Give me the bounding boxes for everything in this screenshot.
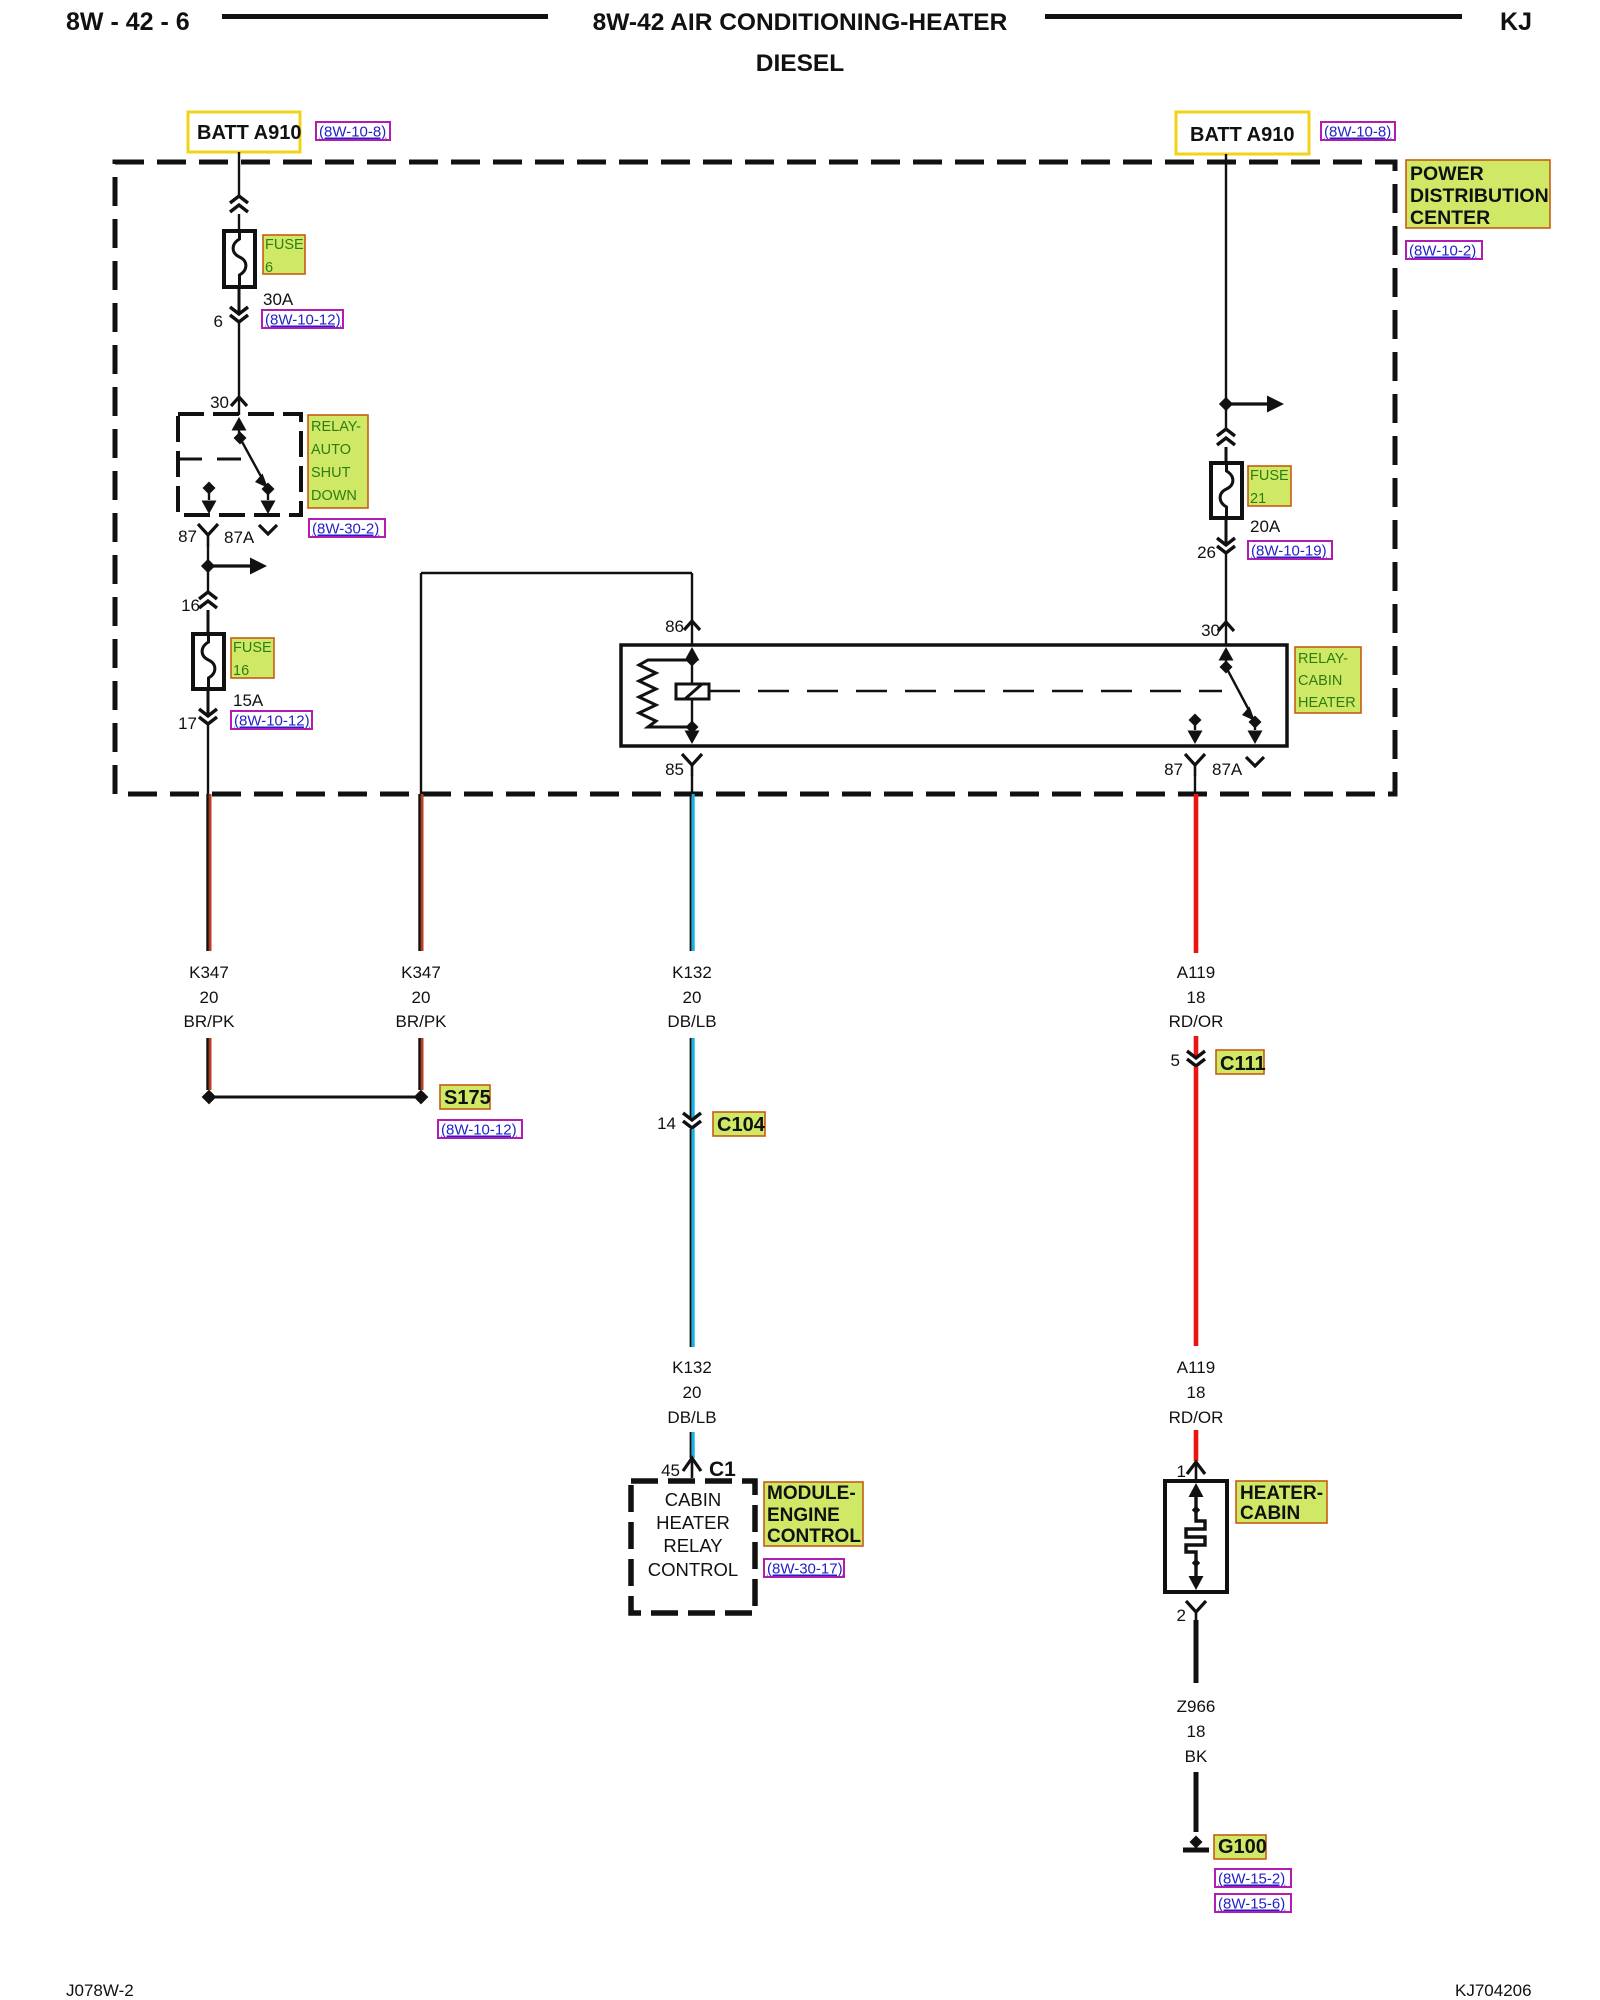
link 8W-10-12 (fuse 16) [231,711,312,730]
ASD relay common arm pin 30 [232,417,247,445]
wire K132 to ECM pin 45 [690,1432,692,1458]
power distribution center dashed border [115,162,1395,794]
relay contact arm pin 30 [1219,647,1263,744]
wire A119 to heater pin 1 [1194,1430,1199,1461]
svg-text:(8W-15-6): (8W-15-6) [1218,1896,1285,1913]
label FUSE 6 [263,235,305,276]
pin 87A chevron (ASD) [259,525,277,534]
svg-text:CENTER: CENTER [1410,207,1490,229]
junction diamond + continuation arrow (right) [1219,396,1284,413]
pin 30 chevron (cabin relay) [1218,622,1234,645]
in-line connector (double chevron up) [230,196,248,231]
ASD relay switch blade to 87A [240,438,276,514]
svg-text:K347: K347 [189,963,229,982]
wire K347 left (BR/PK) upper segment [206,794,209,951]
link 8W-10-12 (fuse 6) [262,310,343,329]
svg-text:G100: G100 [1218,1836,1267,1858]
svg-text:CABIN: CABIN [665,1489,722,1510]
svg-text:(8W-10-12): (8W-10-12) [441,1122,517,1139]
link 8W-30-17 [764,1559,844,1578]
link 8W-10-8 (right) [1321,122,1395,141]
svg-text:RELAY-: RELAY- [311,419,361,435]
svg-text:21: 21 [1250,491,1266,507]
wire pin 6 to ASD relay [238,323,240,397]
svg-text:(8W-10-19): (8W-10-19) [1251,543,1327,560]
svg-text:A119: A119 [1177,963,1215,982]
svg-text:FUSE: FUSE [1250,468,1289,484]
label FUSE 16 [231,638,274,679]
svg-text:DOWN: DOWN [311,488,357,504]
svg-text:J078W-2: J078W-2 [66,1981,134,2000]
svg-text:20: 20 [412,988,431,1007]
svg-text:(8W-10-12): (8W-10-12) [234,713,310,730]
wire pin 26 down to pin 30 [1225,554,1227,622]
relay cabin heater box [621,645,1287,746]
header rule right [1045,14,1462,19]
svg-text:Z966: Z966 [1177,1697,1216,1716]
svg-text:AUTO: AUTO [311,442,351,458]
wire 85 to PDC border [691,775,693,794]
svg-text:RELAY-: RELAY- [1298,651,1348,667]
pin 85 Y connector [682,754,702,776]
wire label K132 20 DB/LB (lower) [667,1358,716,1427]
svg-text:20: 20 [683,1383,702,1402]
connector C104 double chevron [683,1113,701,1128]
svg-text:POWER: POWER [1410,163,1484,185]
in-line connector (double chevron up, right) [1217,429,1235,463]
svg-text:HEATER: HEATER [656,1512,730,1533]
label G100 [1214,1835,1267,1859]
wire fuse 6 to pin 6 connector [238,287,241,314]
in-line connector pin 16 (double chevron up) [199,592,217,634]
svg-text:86: 86 [665,617,684,636]
wire A119 to C111 [1194,1036,1199,1058]
wire A119 below C111 [1194,1067,1199,1346]
ECM internal text CABIN HEATER RELAY CONTROL [648,1489,738,1580]
in-line connector pin 6 (double chevron down) [230,307,248,322]
svg-text:87A: 87A [224,528,255,547]
label RELAY-AUTO SHUT DOWN [308,415,368,508]
battery feed box BATT A910 (right) [1176,112,1309,154]
wire pin 17 to PDC border [207,725,209,794]
svg-text:18: 18 [1187,1383,1206,1402]
svg-text:45: 45 [661,1461,680,1480]
svg-text:1: 1 [1177,1462,1186,1481]
wire label K347 20 BR/PK (right) [395,963,447,1031]
link 8W-10-12 (S175) [438,1120,522,1139]
svg-text:30A: 30A [263,290,294,309]
svg-text:6: 6 [265,260,273,276]
wire fuse 16 to pin 17 [207,689,210,716]
label HEATER-CABIN [1236,1481,1327,1524]
svg-text:16: 16 [181,596,200,615]
heater pin 1 chevron [1187,1462,1205,1480]
svg-text:5: 5 [1171,1051,1180,1070]
connector C1 chevron [683,1458,701,1478]
svg-text:CABIN: CABIN [1240,1503,1300,1524]
module engine control dashed box [631,1481,755,1613]
header rule left [222,14,548,19]
svg-text:HEATER: HEATER [1298,695,1356,711]
relay coil dashed actuation line [709,690,1222,693]
link 8W-10-19 [1248,541,1332,560]
link 8W-10-8 (left) [316,122,390,141]
svg-text:FUSE: FUSE [265,237,304,253]
svg-text:87: 87 [1164,760,1183,779]
label MODULE-ENGINE CONTROL [764,1482,863,1547]
wire A119 (RD/OR) upper segment [1194,794,1199,953]
wire K347 right lower segment [418,1038,421,1090]
svg-text:MODULE-: MODULE- [767,1483,856,1504]
in-line connector pin 26 (double chevron down) [1217,538,1235,553]
relay coil branch 86-85 [685,647,700,744]
relay contact 87 stub [1188,713,1203,744]
relay coil box with slash [676,684,709,699]
svg-text:BK: BK [1185,1747,1208,1766]
battery feed box BATT A910 (left) [188,112,301,152]
wire BATT A910 right down [1225,154,1227,404]
svg-text:(8W-10-2): (8W-10-2) [1409,243,1476,260]
junction diamond + continuation arrow [201,558,267,575]
relay coil resistor zigzag [639,660,692,727]
svg-text:BATT A910: BATT A910 [197,122,301,144]
label POWER DISTRIBUTION CENTER [1406,160,1550,229]
svg-text:30: 30 [210,393,229,412]
link 8W-15-2 [1215,1869,1291,1888]
fuse F21 [1211,463,1242,518]
svg-text:C1: C1 [709,1458,736,1481]
svg-text:K347: K347 [401,963,441,982]
svg-text:87A: 87A [1212,760,1243,779]
connector C111 double chevron [1187,1051,1205,1066]
svg-text:(8W-30-2): (8W-30-2) [312,521,379,538]
wire to in-line connector [1225,404,1227,429]
fuse F16 [193,634,224,689]
svg-text:DB/LB: DB/LB [667,1012,716,1031]
wire label K347 20 BR/PK (left) [183,963,235,1031]
svg-text:20A: 20A [1250,517,1281,536]
svg-text:FUSE: FUSE [233,640,272,656]
link 8W-30-2 [309,519,385,538]
wire label K132 20 DB/LB (upper) [667,963,716,1031]
wire K347 right (BR/PK) upper segment [418,794,421,951]
svg-text:20: 20 [200,988,219,1007]
svg-text:K132: K132 [672,963,712,982]
svg-text:KJ: KJ [1500,8,1532,36]
svg-text:CONTROL: CONTROL [767,1526,861,1547]
wire horizontal to relay coil 86 [421,572,692,574]
ground G100 symbol [1183,1835,1209,1850]
svg-text:SHUT: SHUT [311,465,351,481]
svg-text:16: 16 [233,663,249,679]
wire BATT A910 left down to in-line connector [238,152,240,196]
wire junction down to connector 16 [207,566,209,592]
svg-text:CABIN: CABIN [1298,673,1342,689]
link 8W-15-6 [1215,1894,1291,1913]
svg-text:(8W-10-8): (8W-10-8) [319,124,386,141]
heater-cabin box [1165,1481,1227,1592]
svg-text:(8W-10-12): (8W-10-12) [265,312,341,329]
pin 87 Y connector (cabin relay) [1185,754,1205,776]
svg-text:30: 30 [1201,621,1220,640]
wire K347 left lower segment [206,1038,209,1090]
svg-text:C111: C111 [1220,1053,1266,1075]
svg-text:20: 20 [683,988,702,1007]
svg-text:8W-42 AIR CONDITIONING-HEATER: 8W-42 AIR CONDITIONING-HEATER [593,9,1008,36]
fuse F6 [224,231,255,287]
svg-text:17: 17 [178,714,197,733]
svg-text:HEATER-: HEATER- [1240,1483,1323,1504]
wire Z966 (BK) upper segment [1194,1620,1199,1683]
svg-text:A119: A119 [1177,1358,1215,1377]
svg-text:RD/OR: RD/OR [1169,1012,1224,1031]
wire 87 down to junction [207,545,209,566]
svg-text:2: 2 [1177,1606,1186,1625]
pin 86 chevron [684,621,700,645]
svg-text:BATT A910: BATT A910 [1190,124,1294,146]
svg-text:14: 14 [657,1114,676,1133]
wire K132 below C104 [690,1129,692,1347]
wire fuse 21 to pin 26 [1225,518,1228,545]
label FUSE 21 [1248,466,1291,507]
wire label A119 18 RD/OR (upper) [1169,963,1224,1031]
svg-text:18: 18 [1187,988,1206,1007]
svg-text:K132: K132 [672,1358,712,1377]
svg-text:BR/PK: BR/PK [395,1012,447,1031]
svg-text:KJ704206: KJ704206 [1455,1981,1532,2000]
svg-text:15A: 15A [233,691,264,710]
svg-text:6: 6 [214,312,223,331]
svg-text:RELAY: RELAY [663,1535,722,1556]
pin 87 Y connector (ASD) [198,524,218,546]
wire Z966 lower segment [1194,1772,1199,1832]
pin 2 Y connector [1186,1601,1206,1623]
svg-text:RD/OR: RD/OR [1169,1408,1224,1427]
ASD relay pin 87 stub [202,481,217,514]
wire label Z966 18 BK [1177,1697,1216,1766]
svg-text:(8W-10-8): (8W-10-8) [1324,124,1391,141]
svg-text:CONTROL: CONTROL [648,1559,738,1580]
svg-text:(8W-30-17): (8W-30-17) [767,1561,843,1578]
svg-text:S175: S175 [444,1087,491,1109]
wire down to pin 86 [691,573,693,621]
in-line connector pin 17 (double chevron down) [199,709,217,724]
relay ASD dashed box [178,414,301,515]
label RELAY-CABIN HEATER [1295,647,1361,713]
wire 87 to PDC border (right) [1194,775,1196,794]
pin 87A chevron (cabin relay) [1246,757,1264,766]
ASD relay coil dashed bar [178,458,243,461]
svg-text:C104: C104 [717,1114,766,1136]
heater element symbol [1186,1483,1205,1590]
wire label A119 18 RD/OR (lower) [1169,1358,1224,1427]
label S175 [440,1085,491,1109]
svg-text:ENGINE: ENGINE [767,1505,840,1526]
svg-text:DB/LB: DB/LB [667,1408,716,1427]
svg-text:(8W-15-2): (8W-15-2) [1218,1871,1285,1888]
wire branch vertical x421 inside PDC [420,573,422,794]
label C104 [713,1112,766,1136]
label C111 [1216,1050,1266,1075]
wire K132 to C104 [690,1038,692,1120]
splice S175 right diamond [414,1090,429,1105]
wire K132 (DB/LB) upper segment [690,794,692,951]
link 8W-10-2 [1406,241,1482,260]
svg-text:85: 85 [665,760,684,779]
svg-text:DISTRIBUTION: DISTRIBUTION [1410,185,1549,207]
svg-text:BR/PK: BR/PK [183,1012,235,1031]
splice bus wire [209,1096,421,1099]
splice S175 left diamond [202,1090,217,1105]
svg-text:8W - 42 - 6: 8W - 42 - 6 [66,8,190,36]
svg-text:DIESEL: DIESEL [756,50,845,77]
pin 30 chevron (ASD) [231,397,247,415]
svg-text:18: 18 [1187,1722,1206,1741]
svg-text:26: 26 [1197,543,1216,562]
svg-text:87: 87 [178,527,197,546]
